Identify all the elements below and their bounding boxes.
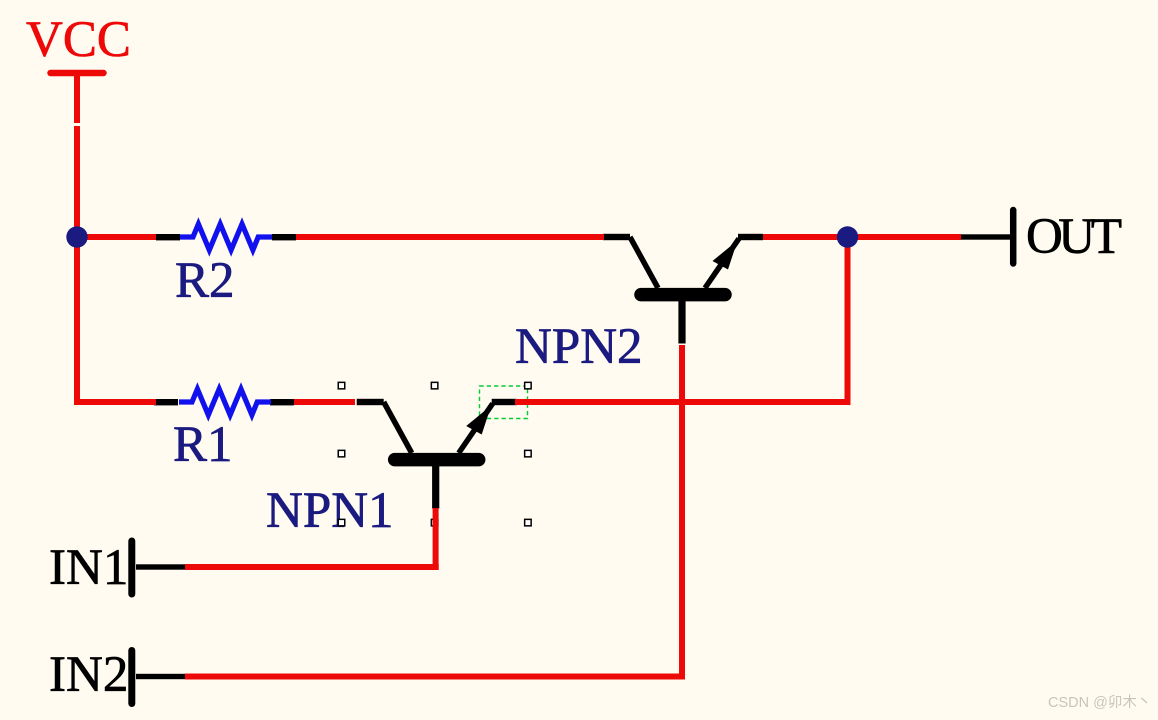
svg-text:IN2: IN2 [49,647,128,703]
svg-text:IN1: IN1 [49,540,128,596]
svg-text:OUT: OUT [1026,209,1122,265]
svg-text:NPN2: NPN2 [515,319,643,375]
svg-text:R2: R2 [175,253,235,309]
svg-text:R1: R1 [173,417,233,473]
svg-text:VCC: VCC [26,12,131,68]
svg-text:NPN1: NPN1 [266,483,394,539]
svg-text:CSDN @卯木丶: CSDN @卯木丶 [1048,694,1151,711]
